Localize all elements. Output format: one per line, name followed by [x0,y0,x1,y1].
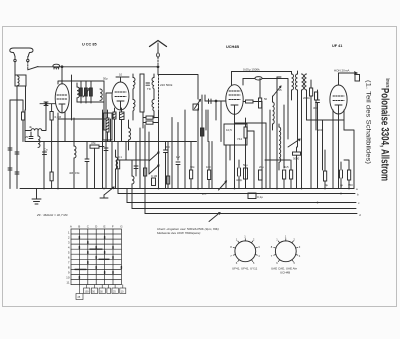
block frame [103,113,112,140]
capacitor L1 col [15,152,19,154]
svg-text:HON 20mA: HON 20mA [334,69,349,73]
grid marks [75,237,121,279]
wire top to x198 [158,75,198,100]
bus D [132,208,356,210]
wire y160 [117,159,149,161]
svg-text:5000: 5000 [317,128,324,132]
resistor R14 [283,170,286,179]
coil L9 [273,102,275,124]
coil L7 [129,128,131,140]
socket P1 pin ticks [233,239,257,262]
svg-text:0,05μ 1500k: 0,05μ 1500k [243,68,260,72]
terminal box marks [78,290,125,299]
resistor R25 [244,127,247,138]
wire verticals midcenter [112,110,191,189]
wire [265,96,298,160]
wire L1 down [16,86,18,189]
svg-text:B: B [78,225,80,229]
svg-text:5000: 5000 [293,157,300,161]
resistor R15 [290,170,293,179]
wire antenna left down [14,62,16,75]
svg-text:4M: 4M [69,171,74,175]
bus B [118,193,355,195]
cap C10 [164,150,168,153]
svg-text:0,1M: 0,1M [151,174,158,178]
resistor R19 [248,193,256,199]
wire x158 main vertical [157,67,159,75]
resistor R2 [80,88,83,96]
switch S5 [104,187,114,195]
tube V3 UCH42 [226,85,243,115]
svg-text:A: A [70,225,72,229]
svg-text:E: E [104,225,106,229]
resistor R4 [90,88,93,96]
osc coil T3 [292,74,294,90]
tube V1 UCC85 [55,84,69,113]
wire long mid [25,141,197,143]
choke Dr1 [53,64,60,68]
resistor R20 [22,112,25,120]
wire grid left [40,103,55,105]
svg-text:F: F [112,225,114,229]
svg-text:(1. Teil des Schaltbildes): (1. Teil des Schaltbildes) [365,80,371,164]
svg-text:UCH4B: UCH4B [226,45,239,49]
svg-text:Polonaise 3304, Allstrom: Polonaise 3304, Allstrom [379,88,391,181]
svg-text:200Ω: 200Ω [303,96,310,100]
wire V3 bottom [234,114,236,188]
socket P2 pin ticks [274,239,298,262]
wire V1 right [71,75,73,120]
power coil T4 [302,74,304,90]
svg-text:ZF : 462kHz = 32,7 Mtr: ZF : 462kHz = 32,7 Mtr [36,213,69,217]
cap C35 [340,170,343,178]
resistor R10 [117,160,120,169]
switch S2 [149,152,159,161]
svg-text:0,1μ: 0,1μ [257,195,263,199]
svg-text:10,5: 10,5 [226,128,232,132]
svg-text:0,1: 0,1 [118,155,122,159]
svg-text:300: 300 [313,106,318,110]
wire right area [323,120,355,189]
antenna coil L1 [15,75,26,86]
mid left coil L4 [31,129,42,131]
switch S4 [288,139,300,147]
box connector [193,104,199,110]
wire [103,110,108,189]
coil L11 [116,157,118,169]
cap C32 [238,168,241,176]
resistor R28 [259,98,262,108]
IF T1 primary lower coil [133,100,135,112]
cap C1 [44,102,48,106]
wire antenna right to switch dashed [27,62,29,70]
wire V3 left [205,100,226,102]
tube V2 [112,82,129,110]
cap C14 [316,100,320,103]
svg-text:300: 300 [165,145,170,149]
svg-text:30k: 30k [190,165,195,169]
bus junction dots [43,188,350,204]
grid column letters [70,225,123,229]
coil L10 [279,127,281,162]
cap C13 [209,99,212,104]
svg-text:440p: 440p [236,178,243,182]
wire v2 left [106,93,112,130]
antenna lead rings [15,57,28,60]
coil L8 [132,176,134,184]
trimmer T5 [219,181,227,190]
svg-text:1k5: 1k5 [284,165,289,169]
cap C31 [134,166,138,169]
bus A [20,188,354,190]
resistor R8 [146,116,153,119]
svg-text:350: 350 [348,183,353,187]
svg-text:15k: 15k [75,171,80,175]
wire V3 top loop [232,72,291,86]
switch S6 [195,100,201,109]
wire [226,123,266,189]
tube V4 UF41 [330,85,347,114]
svg-text:25: 25 [279,88,283,92]
svg-text:50: 50 [264,97,268,101]
svg-text:UF41, UF41, UY11: UF41, UF41, UY11 [232,267,258,271]
wire left col [9,100,11,189]
svg-text:20μ: 20μ [259,165,264,169]
resistor R11 [190,170,193,179]
resistor R9 [152,178,156,186]
wire horizontal y161 [307,119,345,121]
resistor R1 0,1M [50,112,53,121]
coil L6 [74,146,76,158]
svg-text:220 500k: 220 500k [160,83,173,87]
box resistor R7 [120,112,125,120]
mast antenna symbol [150,41,167,47]
capacitor C34 [259,170,263,180]
coil L3 [100,89,102,100]
svg-text:TD: TD [147,87,151,91]
cap C5 [146,83,150,85]
svg-text:4μ: 4μ [340,183,344,187]
resistor R29 [315,92,318,100]
svg-text:47k: 47k [91,141,96,145]
svg-text:UCH4B: UCH4B [280,271,290,275]
coil L2 [77,87,79,98]
svg-text:10: 10 [119,73,123,77]
socket P1 pin numbers [230,235,260,266]
svg-text:1M: 1M [176,155,181,159]
resistor R16 [310,88,313,96]
resistor R6 [90,145,99,148]
strong vertical x277 [276,77,278,189]
iron core [140,74,144,112]
IF transformer T1 primary coil [133,78,135,90]
svg-text:Meßwerte des UKW 7000a(axis): Meßwerte des UKW 7000a(axis) [157,231,200,235]
terminal boxes row [76,285,126,300]
svg-text:UF 41: UF 41 [332,44,342,48]
bus C [127,202,356,204]
svg-text:50p: 50p [103,77,108,81]
cap C11 [176,162,180,165]
wire mast dashed [157,57,159,67]
wire top bus left [38,66,158,68]
bus E [145,213,357,215]
resistor R23 [167,176,170,184]
cap C7 [43,152,47,155]
cap C6 [29,137,33,139]
alignment grid [71,229,121,285]
socket P2 pin numbers [271,235,301,266]
coil L5 [38,136,40,147]
wire plate V1 [58,81,104,84]
resistor R21 [106,118,109,132]
svg-text:Ca: Ca [44,148,48,152]
svg-text:Invers: Invers [384,79,390,88]
wire osc [206,101,221,189]
resistor R12 [246,100,254,103]
wire V1 grid to top [61,67,63,84]
svg-text:100: 100 [85,290,90,293]
svg-text:25: 25 [25,135,29,139]
antenna [10,48,33,57]
socket circle P2 [275,241,296,262]
wire arrow right [339,72,358,74]
wire [58,118,65,189]
socket circle P1 [235,241,256,262]
svg-text:11: 11 [66,280,69,284]
resistor R24 [144,168,147,176]
wire extra verticals [111,119,169,189]
svg-text:+/~: +/~ [202,192,207,196]
switch S1 [28,67,38,70]
wire V4 pins [333,110,344,189]
svg-text:U CC 85: U CC 85 [82,43,97,47]
wire v1 bottom [58,112,106,125]
capacitor left col [8,148,12,150]
wire hbus 81 drops [81,81,104,130]
resistor R27 [208,170,211,180]
IF transformer T1 secondary coil [152,78,154,90]
svg-text:4μ: 4μ [325,183,329,187]
wire [45,106,47,131]
svg-text:10: 10 [66,275,70,279]
cap C30 [8,168,12,170]
svg-text:100: 100 [206,165,211,169]
cap C9 [104,148,108,151]
resistor R18 [348,170,351,180]
resistor R13 [293,152,301,155]
svg-text:50μ: 50μ [243,163,248,167]
trimmer arrow [83,88,90,97]
switch S3 [149,165,159,174]
trimmer arrow [273,86,281,96]
wire [270,105,284,189]
capacitor C33 50u [244,168,248,179]
resistor R22 [113,112,116,119]
ground G1 [32,189,41,205]
resistor R5 [50,172,53,181]
band box [224,124,247,145]
cap C8 [85,159,89,162]
resistor R17 [324,171,327,181]
tiny value labels [25,73,353,188]
svg-text:744: 744 [237,137,242,141]
grid row numbers [66,230,70,284]
capsule C12 [243,79,288,97]
resistor R26 [201,128,204,136]
trimmer T6 [209,213,220,222]
resistor R3 [85,88,88,96]
box term [355,75,360,82]
